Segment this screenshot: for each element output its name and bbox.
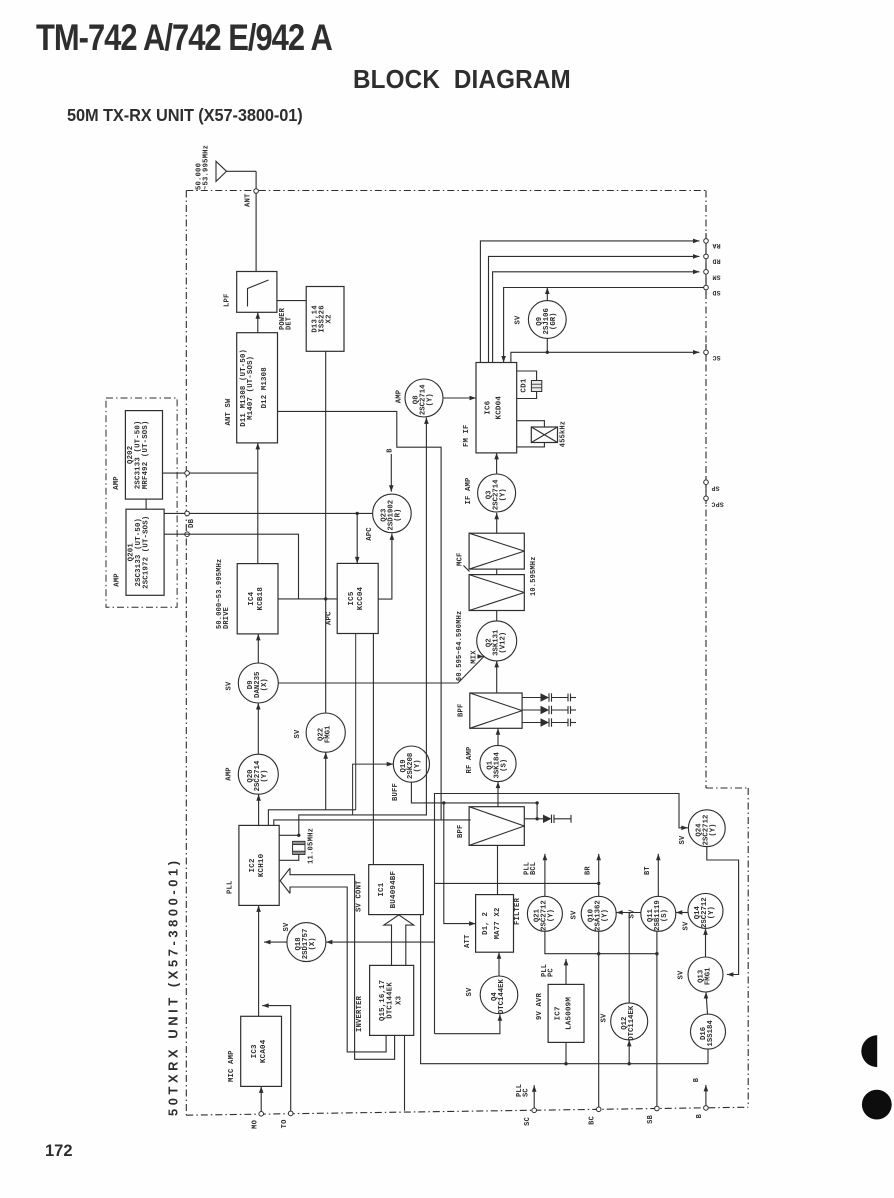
bus arrow inverter to IC2 xyxy=(280,868,394,1059)
transistor Q11 2SB1119 SV xyxy=(641,896,676,931)
svg-text:2SC1972 (UT-SOS): 2SC1972 (UT-SOS) xyxy=(143,516,151,589)
transistor Q18 2SD1757 SV xyxy=(287,923,326,962)
label DB xyxy=(188,518,196,528)
wire Q9 to SD line xyxy=(545,288,550,301)
crystal X1 11.05MHz xyxy=(293,841,305,854)
svg-text:SV: SV xyxy=(515,315,523,325)
svg-text:(Y): (Y) xyxy=(710,823,718,836)
label MIC AMP xyxy=(228,1050,236,1082)
label SV Q4 xyxy=(466,987,474,997)
regulator IC7 LA5009M xyxy=(548,984,584,1042)
junction Q10 bus xyxy=(597,952,600,955)
label SV Q24 xyxy=(679,835,687,845)
label RF AMP xyxy=(466,746,474,774)
wire Q11 to Q10 xyxy=(616,910,641,915)
svg-text:SPC: SPC xyxy=(711,500,723,507)
svg-text:BU4094BF: BU4094BF xyxy=(390,870,398,908)
varactor bank D BPF1 row1 xyxy=(522,693,576,701)
junction IC7 AVR xyxy=(564,1062,567,1065)
transistor Q23 2SD1902 APC xyxy=(373,494,412,533)
op-amp IC5 KCC04 APC xyxy=(337,563,378,633)
label APC IC5 xyxy=(326,611,334,625)
label SV D9 xyxy=(226,681,234,691)
transistor Q1 3SK184 RF AMP xyxy=(480,745,516,781)
label FM IF xyxy=(463,424,471,447)
svg-text:(Y): (Y) xyxy=(601,909,609,922)
label IF AMP xyxy=(465,477,473,505)
svg-text:(X): (X) xyxy=(309,937,317,950)
node SC right xyxy=(704,350,709,355)
op-amp IC6 KCD04 FM IF xyxy=(476,363,517,453)
wire Q3 to IC6 xyxy=(494,453,499,474)
wire Q21 PLL BCL xyxy=(543,854,548,897)
wire Q12 to Q10 line xyxy=(628,913,630,1003)
label BPF1 xyxy=(458,703,466,717)
label 10.595MHz xyxy=(530,556,538,596)
svg-text:IC2: IC2 xyxy=(249,858,257,872)
transistor Q4 DTC144EK SV xyxy=(480,976,518,1014)
svg-text:SV: SV xyxy=(571,910,579,920)
wire SV vertical to Q24 xyxy=(435,794,688,1034)
wire Q10 to bus xyxy=(598,931,600,953)
svg-text:RA: RA xyxy=(712,242,720,249)
wire SC terminal xyxy=(532,1085,537,1110)
transistor Q22 FMG1 SV xyxy=(306,713,345,752)
wire Q14 to Q11 xyxy=(676,910,688,915)
wire border solid segment terminals xyxy=(705,233,707,504)
label SV Q10 xyxy=(571,910,579,920)
label ANT SW xyxy=(225,398,233,426)
svg-text:KCA04: KCA04 xyxy=(260,1039,268,1063)
label INVERTER xyxy=(356,995,364,1032)
label SPC xyxy=(711,500,723,507)
wire ANT SW to BPF xyxy=(278,411,442,820)
wire ANT SW to LPF xyxy=(256,312,261,332)
svg-text:(Y): (Y) xyxy=(708,906,716,919)
svg-text:INVERTER: INVERTER xyxy=(356,995,364,1032)
amplifier Q201 2SC3133/2SC1972 xyxy=(126,509,164,595)
svg-text:TO: TO xyxy=(281,1120,289,1129)
node SC bottom xyxy=(532,1108,537,1113)
node ANT xyxy=(254,189,259,194)
transistor Q3 2SC2714 IF AMP xyxy=(478,474,516,512)
filter MCF1 xyxy=(469,533,524,569)
filter BPF2 xyxy=(469,807,524,846)
wire IC2 to BPF line xyxy=(274,820,471,826)
svg-text:BC: BC xyxy=(589,1116,597,1125)
label ATT xyxy=(464,934,472,948)
label APC Q23 xyxy=(366,527,374,541)
wire IC2 to Q20 xyxy=(256,794,261,825)
svg-text:B: B xyxy=(696,1113,704,1118)
wire LPF to power det xyxy=(277,300,306,302)
wire IC7 PLL PC xyxy=(564,959,569,985)
svg-text:FMG1: FMG1 xyxy=(325,725,333,743)
transistor Q9 2SJ106 SV xyxy=(528,301,566,339)
wire Q13 to Q14 xyxy=(703,928,708,957)
svg-text:(Y): (Y) xyxy=(414,759,422,772)
amplifier Q202 2SC3133/MRF492 xyxy=(125,411,162,500)
wire IC5 to IC1 xyxy=(372,634,374,865)
wire IC6 to RA xyxy=(480,239,699,363)
label AMP Q8 xyxy=(396,389,404,403)
svg-text:SV CONT: SV CONT xyxy=(356,880,364,912)
title TM-742A/742E/942A xyxy=(36,17,332,58)
label BT xyxy=(644,866,652,875)
junction Q12 AVR xyxy=(628,1062,631,1065)
svg-text:60.595~64.590MHz: 60.595~64.590MHz xyxy=(456,611,464,681)
label SV Q14 xyxy=(683,921,691,931)
label SV Q22 xyxy=(294,729,302,739)
svg-text:X2: X2 xyxy=(326,314,334,323)
wire PLL buffer to Q19 xyxy=(353,762,394,815)
svg-text:KCC04: KCC04 xyxy=(357,586,365,610)
label 50TXRX UNIT (X57-3800-01) xyxy=(166,861,181,1116)
node SD xyxy=(704,285,709,290)
label AMP Q20 xyxy=(226,767,234,781)
node SB xyxy=(655,1106,660,1111)
svg-text:455kHz: 455kHz xyxy=(560,421,568,447)
label SC right xyxy=(712,354,720,361)
wire Q1 to BPF1 xyxy=(496,728,501,745)
label PLL BCL xyxy=(524,862,539,875)
wire AVR line to Q12 xyxy=(627,1040,632,1064)
label MIX xyxy=(471,650,479,664)
svg-text:BT: BT xyxy=(644,866,652,875)
label AMP Q202 xyxy=(113,476,121,490)
wire IC4 to ANT SW xyxy=(256,443,261,564)
label 50.000~53.995MHz DRIVE xyxy=(216,559,231,629)
label BC xyxy=(589,1116,597,1125)
node Q202 output xyxy=(185,471,190,476)
svg-text:MA77 X2: MA77 X2 xyxy=(494,907,502,939)
svg-text:ATT: ATT xyxy=(464,934,472,948)
wire SV line to Q18 xyxy=(326,940,435,945)
svg-text:MCF: MCF xyxy=(457,552,465,566)
op-amp IC3 KCA04 MIC AMP xyxy=(241,1016,282,1086)
label CD1 xyxy=(521,378,529,392)
label RD xyxy=(712,258,720,265)
wire IC2 to H1 PLL line xyxy=(268,810,355,826)
node RA xyxy=(704,239,709,244)
svg-text:IF AMP: IF AMP xyxy=(465,477,473,505)
wire Q201 to Q23 APC line xyxy=(164,512,373,514)
svg-text:MIX: MIX xyxy=(471,650,479,664)
svg-text:AMP: AMP xyxy=(114,573,122,587)
punch mark half xyxy=(861,1035,877,1067)
svg-text:PLL: PLL xyxy=(227,880,235,894)
label FILTER xyxy=(514,897,522,925)
wire Q19 to BPF junction xyxy=(411,782,537,803)
svg-text:MRF492 (UT-SOS): MRF492 (UT-SOS) xyxy=(142,420,150,489)
label 60.595~64.590MHz xyxy=(456,611,464,681)
transistor Q19 2SK208 BUFF xyxy=(393,746,429,782)
wire D16 to Q13 xyxy=(704,992,709,1014)
svg-text:FILTER: FILTER xyxy=(514,897,522,925)
svg-text:D1, 2: D1, 2 xyxy=(482,912,490,935)
wire IC5 to Q23 xyxy=(378,533,394,599)
label 11.05MHz xyxy=(307,828,315,864)
junction SB bus xyxy=(655,952,658,955)
svg-text:APC: APC xyxy=(326,611,334,625)
wire Q9 to SC line xyxy=(546,338,548,352)
varactor D BPF2 xyxy=(524,815,571,823)
svg-text:1SS184: 1SS184 xyxy=(707,1020,715,1047)
wire crystal to IC2 xyxy=(279,855,299,861)
svg-text:TM-742 A/742 E/942 A: TM-742 A/742 E/942 A xyxy=(36,17,332,58)
wire SV vertical to Q4 xyxy=(435,1014,503,1033)
resonator 455kHz xyxy=(531,427,557,443)
wire B terminal xyxy=(704,1085,709,1108)
svg-text:50M TX-RX UNIT (X57-3800-01): 50M TX-RX UNIT (X57-3800-01) xyxy=(67,106,303,126)
wire PLL line to Q22 xyxy=(323,752,328,810)
svg-text:AMP: AMP xyxy=(113,476,121,490)
wire power det to Q22 xyxy=(325,351,327,713)
wire IC7 to AVR line xyxy=(565,1042,567,1063)
page number 172 xyxy=(45,1142,73,1160)
label SV CONT xyxy=(356,880,364,912)
svg-text:IC1: IC1 xyxy=(378,882,386,896)
wire IC6 to SM xyxy=(493,270,700,363)
svg-text:(Y): (Y) xyxy=(548,909,556,922)
title BLOCK DIAGRAM xyxy=(353,65,571,94)
svg-text:SV: SV xyxy=(226,681,234,691)
label LPF xyxy=(224,293,232,307)
wire IC1 to AVR line xyxy=(421,915,708,1064)
transistor Q2 3SK131 MIX xyxy=(477,621,517,661)
wire MCF1 to MCF2 xyxy=(496,569,498,575)
filter MCF2 xyxy=(469,575,524,611)
svg-text:D12 M1308: D12 M1308 xyxy=(261,367,269,408)
svg-text:(V12): (V12) xyxy=(499,632,507,654)
svg-text:AMP: AMP xyxy=(396,389,404,403)
svg-text:IC4: IC4 xyxy=(248,591,256,605)
label SB xyxy=(647,1114,655,1123)
label B terminal xyxy=(693,1077,701,1082)
svg-text:SV: SV xyxy=(283,922,291,932)
wire IC6 to SC xyxy=(511,350,700,363)
op-amp IC1 BU4094BF SV CONT xyxy=(369,865,424,915)
wire Q20 to D9 xyxy=(256,703,261,754)
svg-text:BPF: BPF xyxy=(458,703,466,717)
wire MCF to Q3 xyxy=(494,513,499,533)
node MO xyxy=(259,1112,264,1117)
svg-text:(Y): (Y) xyxy=(499,488,507,501)
svg-text:B: B xyxy=(386,448,394,453)
label BUFF xyxy=(392,783,400,801)
wire Q201 to Q202 xyxy=(145,499,147,509)
wire antenna to LPF xyxy=(255,171,257,271)
junction ATT feed xyxy=(442,801,445,804)
label 9V AVR xyxy=(536,992,544,1020)
wire crystal line to Q8 xyxy=(299,417,429,835)
svg-text:(Y): (Y) xyxy=(427,393,435,406)
bus arrow inverter to IC1 xyxy=(384,915,414,966)
wire BPF2 to ATT xyxy=(497,845,499,894)
capacitor CD1 loop xyxy=(517,371,537,399)
varactor bank D BPF1 row3 xyxy=(522,718,576,726)
label SM xyxy=(712,273,720,280)
transistor Q21 2SC2712 xyxy=(527,896,562,931)
wire APC line to IC5 xyxy=(355,513,360,563)
svg-text:ANT: ANT xyxy=(245,193,253,207)
label ANT xyxy=(245,193,253,207)
wire Q201 lower to IC4-IC5 line xyxy=(164,534,298,599)
wire Q10 BR xyxy=(596,854,601,897)
svg-text:LA5009M: LA5009M xyxy=(566,997,574,1030)
wire D16 to AVR line xyxy=(707,1049,709,1064)
wire inverter to border xyxy=(404,1035,406,1110)
svg-text:IC5: IC5 xyxy=(348,591,356,605)
wire SD to IC6 xyxy=(501,288,703,363)
label SP xyxy=(711,485,719,492)
wire IC2 to crystal junction xyxy=(279,834,299,836)
detector D13,14 ISS226 X2 xyxy=(306,287,344,352)
label POWER DET xyxy=(279,307,294,330)
filter LPF xyxy=(237,272,277,313)
svg-text:SV: SV xyxy=(683,921,691,931)
wire varactor junction xyxy=(536,803,538,819)
wire IC6 to RD xyxy=(489,254,700,362)
transistor Q8 2SC2714 AMP xyxy=(405,379,443,417)
wire TO line xyxy=(262,1003,291,1113)
svg-text:SC: SC xyxy=(524,1117,532,1126)
svg-text:KCD04: KCD04 xyxy=(496,396,504,420)
subtitle 50M TX-RX UNIT (X57-3800-01) xyxy=(67,106,303,126)
svg-text:10.595MHz: 10.595MHz xyxy=(530,556,538,596)
svg-text:KCB18: KCB18 xyxy=(257,587,265,611)
wire Q8 to IC6 xyxy=(443,396,476,401)
svg-text:(S): (S) xyxy=(501,759,509,772)
filter BPF1 xyxy=(470,693,522,728)
svg-text:DTC114EK: DTC114EK xyxy=(628,1005,636,1041)
node SP xyxy=(704,480,709,485)
AMP module dash-dot box xyxy=(106,398,177,607)
wire Q4 to ATT xyxy=(497,952,502,976)
attenuator D1,2 MA77 X2 xyxy=(476,895,514,953)
svg-text:SC: SC xyxy=(523,1088,531,1097)
svg-text:BCL: BCL xyxy=(530,862,538,875)
svg-text:(X): (X) xyxy=(261,678,269,691)
svg-text:(GR): (GR) xyxy=(550,313,558,331)
label BPF2 xyxy=(457,824,465,838)
svg-text:FM IF: FM IF xyxy=(463,424,471,447)
node TO xyxy=(288,1111,293,1116)
wire Q18 to mic line xyxy=(264,940,287,945)
op-amp IC2 KCH10 PLL xyxy=(239,825,279,905)
svg-text:9V AVR: 9V AVR xyxy=(536,992,544,1020)
svg-text:KCH10: KCH10 xyxy=(258,853,266,877)
svg-text:M1407 (UT-SOS): M1407 (UT-SOS) xyxy=(247,356,255,420)
svg-text:11.05MHz: 11.05MHz xyxy=(307,828,315,864)
svg-text:BUFF: BUFF xyxy=(392,783,400,801)
wire Q24 to Q13 xyxy=(707,847,739,977)
switch ANT SW D11 D12 xyxy=(237,333,278,443)
svg-text:PC: PC xyxy=(548,968,556,977)
svg-text:SC: SC xyxy=(712,354,720,361)
label 455kHz xyxy=(560,421,568,447)
wire SV to BR junction xyxy=(435,882,599,884)
label SV Q9 xyxy=(515,315,523,325)
wire bus to BC xyxy=(598,954,600,1110)
label PLL PC xyxy=(541,964,556,977)
transistor Q24 2SC2712 SV xyxy=(688,810,725,847)
svg-text:SM: SM xyxy=(712,273,720,280)
wire Q19 line to ATT xyxy=(444,803,476,926)
transistor Q10 2SA1362 SV xyxy=(581,896,616,931)
wire Q2 to MCF xyxy=(496,611,498,621)
svg-text:IC6: IC6 xyxy=(485,400,493,414)
svg-text:DTC144EK: DTC144EK xyxy=(498,978,506,1014)
svg-text:SV: SV xyxy=(466,987,474,997)
label MO xyxy=(252,1120,260,1129)
label SV Q18 xyxy=(283,922,291,932)
junction crystal xyxy=(297,834,300,837)
label SD xyxy=(712,289,720,296)
svg-text:SV: SV xyxy=(679,835,687,845)
svg-text:FMG1: FMG1 xyxy=(704,967,712,985)
svg-text:~53.995MHz: ~53.995MHz xyxy=(203,145,211,190)
wire BPF1 to Q2 xyxy=(494,661,499,693)
svg-text:BPF: BPF xyxy=(457,824,465,838)
junction Q23 APC xyxy=(356,512,359,515)
svg-text:AMP: AMP xyxy=(226,767,234,781)
diode D9 DAN235 SV xyxy=(238,663,278,703)
svg-text:5 0 T X R X U N I T ( X 5: 5 0 T X R X U N I T ( X 5 7 - 3 8 0 0 - … xyxy=(166,861,181,1116)
junction Q9 SC xyxy=(546,351,549,354)
svg-text:(S): (S) xyxy=(661,909,669,922)
label BR xyxy=(585,866,593,875)
wire IC3 to IC2 xyxy=(256,905,261,1016)
op-amp IC4 KCB18 drive xyxy=(237,564,278,634)
wire Q202 to ANT SW line xyxy=(163,472,258,474)
transistor Q20 2SC2714 AMP xyxy=(238,754,278,794)
svg-text:MIC AMP: MIC AMP xyxy=(228,1050,236,1082)
label B input xyxy=(386,448,394,453)
wire IC4 to IC5 xyxy=(278,598,337,600)
junction power det line xyxy=(324,597,327,600)
junction BR xyxy=(597,882,600,885)
label AMP Q201 xyxy=(114,573,122,587)
label SC bottom xyxy=(524,1117,532,1126)
svg-text:APC: APC xyxy=(366,527,374,541)
svg-text:SV: SV xyxy=(294,729,302,739)
wire B to Q23 xyxy=(389,454,394,492)
svg-text:DRIVE: DRIVE xyxy=(223,607,231,629)
junction BPF2 varactor xyxy=(535,817,538,820)
label SV Q11 xyxy=(629,909,637,919)
transistor Q14 2SC2712 SV xyxy=(688,893,723,928)
transistor Q13 FMG1 SV xyxy=(688,957,723,992)
label TO xyxy=(281,1120,289,1129)
svg-text:SP: SP xyxy=(711,485,719,492)
svg-text:DET: DET xyxy=(286,317,294,330)
node RD xyxy=(704,254,709,259)
node DB lower xyxy=(185,532,190,537)
label PLL SC xyxy=(516,1084,531,1097)
svg-text:BLOCK DIAGRAM: BLOCK DIAGRAM xyxy=(353,65,571,94)
label PLL xyxy=(227,880,235,894)
label MCF xyxy=(457,552,470,571)
svg-text:DTC144EK: DTC144EK xyxy=(387,982,395,1019)
node BC xyxy=(596,1107,601,1112)
svg-text:MO: MO xyxy=(252,1120,260,1129)
svg-text:(R): (R) xyxy=(395,509,403,522)
svg-text:SV: SV xyxy=(678,970,686,980)
wire Q11 BT xyxy=(656,854,661,897)
unit boundary dash-dot border xyxy=(186,191,748,1116)
wire Q11 to SB xyxy=(656,931,658,1108)
